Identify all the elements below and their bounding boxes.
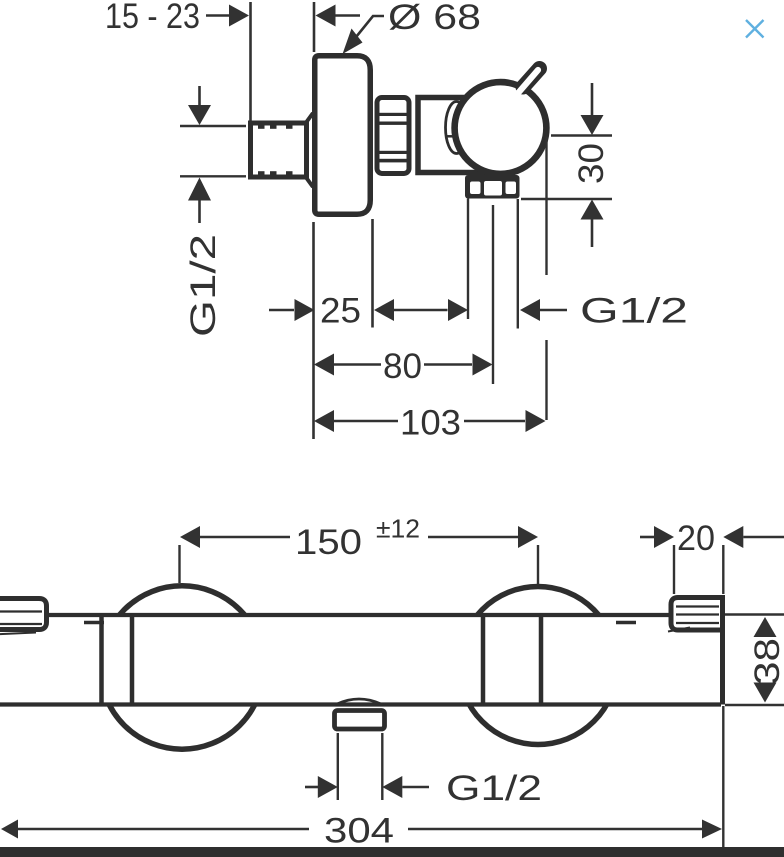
dimension G1/2 (bottom) bbox=[305, 769, 542, 808]
knob base ellipse arc bbox=[446, 102, 468, 154]
union nut (knurled) bbox=[376, 98, 411, 174]
wall nipple (G1/2 thread) bbox=[251, 113, 314, 187]
dimension 15-23 (wall adjustment) bbox=[105, 0, 360, 36]
left escutcheon bbox=[0, 599, 47, 635]
left knob circle bbox=[100, 586, 263, 749]
bar division lines bbox=[84, 615, 636, 703]
svg-text:80: 80 bbox=[383, 347, 422, 386]
close button bbox=[746, 20, 764, 38]
extension lines outlet bbox=[338, 733, 383, 800]
dimension 150 +-12 bbox=[180, 514, 539, 585]
bar body bbox=[0, 615, 723, 705]
right knob circle bbox=[459, 587, 617, 745]
dimension 38 bbox=[725, 615, 784, 706]
extension lines below top view bbox=[314, 137, 547, 440]
svg-text:25: 25 bbox=[320, 292, 361, 331]
svg-text:20: 20 bbox=[677, 519, 715, 558]
wall flange bbox=[315, 56, 371, 215]
svg-text:304: 304 bbox=[324, 812, 394, 851]
svg-text:G1/2: G1/2 bbox=[580, 292, 688, 331]
svg-text:Ø 68: Ø 68 bbox=[388, 0, 481, 37]
svg-text:103: 103 bbox=[400, 404, 461, 443]
svg-text:15 - 23: 15 - 23 bbox=[105, 0, 200, 36]
svg-text:38: 38 bbox=[748, 638, 784, 685]
dimension 103 bbox=[314, 404, 546, 443]
svg-text:G1/2: G1/2 bbox=[446, 769, 542, 808]
extension line bar end bbox=[722, 706, 724, 847]
label Ø68 with leader arrow bbox=[343, 0, 482, 54]
dimension 80 bbox=[314, 347, 493, 386]
svg-text:±12: ±12 bbox=[376, 514, 420, 544]
dimension G1/2 (left, nipple thread) bbox=[180, 86, 246, 337]
dimension 20 bbox=[640, 519, 784, 594]
knob lever bbox=[519, 69, 540, 93]
dimension 304 bbox=[1, 812, 722, 851]
svg-text:150: 150 bbox=[295, 523, 362, 562]
outlet fitting bbox=[335, 711, 385, 730]
extension line: flange front face (above flange) bbox=[313, 2, 316, 52]
dimension 25 and G1/2 (right) row bbox=[269, 292, 688, 331]
dimension 30 (right) bbox=[521, 83, 612, 247]
extension line: tile face bbox=[249, 2, 252, 121]
valve body bbox=[418, 98, 495, 173]
outlet nut (below knob) bbox=[465, 175, 520, 199]
svg-text:30: 30 bbox=[572, 143, 611, 184]
thermostat knob circle bbox=[455, 82, 547, 174]
outlet dome bbox=[337, 699, 381, 704]
bottom black strip bbox=[0, 847, 784, 857]
right escutcheon bbox=[668, 598, 723, 632]
svg-text:G1/2: G1/2 bbox=[184, 234, 223, 337]
